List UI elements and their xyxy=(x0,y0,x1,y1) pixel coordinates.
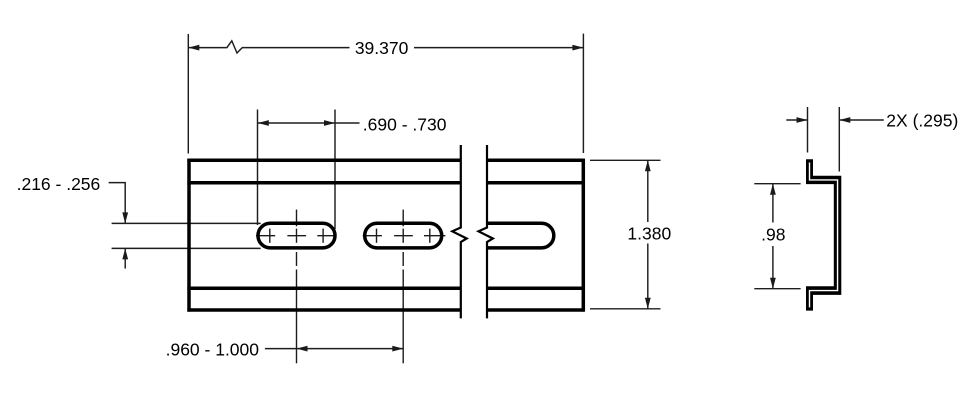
arrow .690 left xyxy=(258,120,269,126)
centerlines of slots xyxy=(256,210,445,364)
extension line bottom of .98 xyxy=(754,288,800,290)
extension line left of 2X (.295) xyxy=(807,107,809,153)
slot 1 left arc centermark xyxy=(269,229,271,243)
slot 3 partial at break xyxy=(488,223,554,248)
arrow 1.380 down xyxy=(645,298,651,309)
slot 1 vertical centerline xyxy=(296,210,298,227)
arrow .216 up xyxy=(122,248,128,259)
arrow 39.370 right xyxy=(572,45,583,51)
dimension line 1.380 xyxy=(647,160,649,222)
arrow 2X right xyxy=(797,117,808,123)
slot 2 right arc centermark xyxy=(429,229,431,243)
svg-text:.960 - 1.000: .960 - 1.000 xyxy=(166,339,260,359)
svg-text:2X (.295): 2X (.295) xyxy=(886,111,958,131)
arrow .960 right xyxy=(392,346,403,352)
extension line top of .98 xyxy=(754,183,800,185)
rail top edge segment A xyxy=(187,158,460,162)
dimension line right tail 2X (.295) xyxy=(839,119,884,121)
rail left edge xyxy=(187,159,191,312)
extension line bottom of 1.380 xyxy=(590,308,661,310)
rail top inner fold line segment B xyxy=(487,181,585,185)
dimension line left tail 2X (.295) xyxy=(786,119,807,121)
cross-section white core xyxy=(810,163,838,308)
dimension line .690-.730 xyxy=(258,122,360,124)
arrow .98 down xyxy=(770,278,776,289)
rail bottom edge segment B xyxy=(487,308,585,312)
slot 1 right arc centermark xyxy=(322,229,324,243)
extension line top of .216-.256 xyxy=(112,222,261,224)
dimension line .960-1.000 xyxy=(265,348,403,350)
dimension texts xyxy=(17,38,959,359)
rail top inner fold line segment A xyxy=(187,181,460,185)
slot 2 xyxy=(365,223,442,248)
slot 1 horizontal centerline xyxy=(256,235,275,237)
extension line top of 1.380 xyxy=(590,159,661,161)
svg-text:1.380: 1.380 xyxy=(627,224,671,244)
arrow .960 left xyxy=(297,346,308,352)
rail bottom inner fold line segment A xyxy=(187,287,460,291)
rail bottom edge segment A xyxy=(187,308,460,312)
break line 2 xyxy=(479,145,493,318)
dimension line 39.370 with break zigzag xyxy=(188,41,349,53)
rail top edge segment B xyxy=(487,158,585,162)
rail right edge xyxy=(582,159,586,312)
lower arrow tail .216-.256 xyxy=(124,248,126,268)
arrow .690 right xyxy=(324,120,335,126)
cross-section sheet profile xyxy=(806,159,841,310)
slot 2 vertical centerline xyxy=(402,210,404,227)
arrow .216 down xyxy=(122,212,128,223)
slot 1 xyxy=(258,223,335,248)
extension line left of 39.370 xyxy=(187,34,189,154)
svg-text:.216 - .256: .216 - .256 xyxy=(17,174,101,194)
rail bottom inner fold line segment B xyxy=(487,287,585,291)
arrow 2X left xyxy=(839,117,850,123)
svg-text:.98: .98 xyxy=(761,225,785,245)
dimension line .98 xyxy=(772,184,774,223)
extension line right of 39.370 xyxy=(582,34,584,153)
extension line bottom of .216-.256 xyxy=(112,247,261,249)
extension line left of .690-.730 xyxy=(257,110,259,226)
arrowheads xyxy=(122,45,850,352)
arrow 39.370 left xyxy=(188,45,199,51)
svg-text:.690 - .730: .690 - .730 xyxy=(363,115,447,135)
slot 2 left arc centermark xyxy=(376,229,378,243)
arrow 1.380 up xyxy=(645,160,651,171)
extension line right of .690-.730 xyxy=(334,110,336,230)
leader .216-.256 xyxy=(109,183,126,224)
rail front view outline xyxy=(187,159,584,312)
break line 1 xyxy=(452,145,493,318)
svg-text:39.370: 39.370 xyxy=(355,38,409,58)
arrow .98 up xyxy=(770,184,776,195)
extension line right of 2X (.295) xyxy=(838,107,840,172)
slot 2 horizontal centerline xyxy=(363,235,382,237)
